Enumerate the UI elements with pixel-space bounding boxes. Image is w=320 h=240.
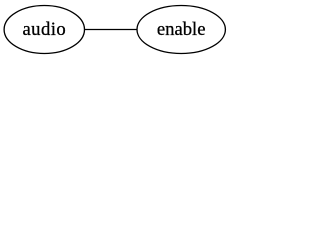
svg-text:enable: enable	[157, 19, 206, 40]
svg-text:audio: audio	[22, 19, 66, 40]
